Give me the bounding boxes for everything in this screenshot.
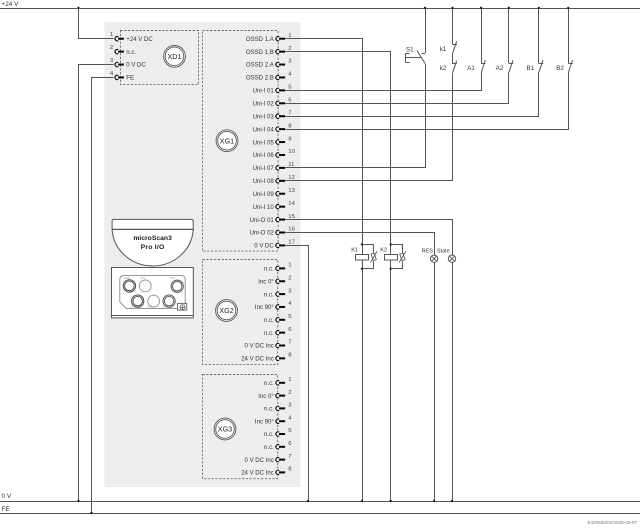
svg-text:Uni-I 04: Uni-I 04 xyxy=(253,127,275,133)
svg-text:0 V: 0 V xyxy=(2,493,12,500)
svg-text:14: 14 xyxy=(288,201,295,207)
svg-text:Inc 0°: Inc 0° xyxy=(258,394,274,400)
svg-text:Uni-I 10: Uni-I 10 xyxy=(253,205,275,211)
svg-text:2: 2 xyxy=(110,45,113,51)
svg-text:XG2: XG2 xyxy=(162,304,168,308)
svg-text:microScan3: microScan3 xyxy=(133,235,172,242)
svg-text:E420562/00/2025-03-07: E420562/00/2025-03-07 xyxy=(587,520,637,525)
svg-text:0 V DC Inc: 0 V DC Inc xyxy=(245,458,274,464)
svg-text:XG2: XG2 xyxy=(219,306,233,315)
svg-text:1: 1 xyxy=(288,377,291,383)
svg-text:n.c.: n.c. xyxy=(264,445,274,451)
svg-text:B2: B2 xyxy=(556,65,564,72)
svg-text:+24 V: +24 V xyxy=(2,1,20,8)
svg-text:2: 2 xyxy=(288,46,291,52)
svg-text:0 V DC: 0 V DC xyxy=(254,244,274,250)
svg-text:+24 V DC: +24 V DC xyxy=(126,37,153,43)
svg-text:Uni-I 03: Uni-I 03 xyxy=(253,114,275,120)
svg-text:XF1: XF1 xyxy=(141,276,146,280)
svg-text:n.c.: n.c. xyxy=(264,318,274,324)
svg-text:24 V DC Inc: 24 V DC Inc xyxy=(241,357,274,363)
svg-text:Uni-I 05: Uni-I 05 xyxy=(253,140,275,146)
svg-text:XD1: XD1 xyxy=(130,304,136,308)
svg-text:Uni-O 02: Uni-O 02 xyxy=(250,231,275,237)
svg-text:S1: S1 xyxy=(406,47,414,54)
svg-text:Uni-I 01: Uni-I 01 xyxy=(253,89,275,95)
svg-text:7: 7 xyxy=(288,454,291,460)
svg-text:FE: FE xyxy=(126,76,134,82)
svg-text:1: 1 xyxy=(110,32,113,38)
svg-text:Uni-I 02: Uni-I 02 xyxy=(253,102,275,108)
svg-text:0 V DC: 0 V DC xyxy=(126,63,146,69)
svg-text:2: 2 xyxy=(288,275,291,281)
svg-text:7: 7 xyxy=(288,110,291,116)
svg-text:Inc 0°: Inc 0° xyxy=(258,279,274,285)
svg-text:K1: K1 xyxy=(351,248,358,254)
svg-text:12: 12 xyxy=(288,175,295,181)
svg-text:n.c.: n.c. xyxy=(264,381,274,387)
svg-text:16: 16 xyxy=(288,227,295,233)
svg-text:B1: B1 xyxy=(527,65,535,72)
svg-text:10: 10 xyxy=(288,149,295,155)
svg-text:K2: K2 xyxy=(380,248,387,254)
svg-text:State: State xyxy=(437,248,450,254)
svg-text:n.c.: n.c. xyxy=(264,267,274,273)
svg-text:Uni-I 06: Uni-I 06 xyxy=(253,153,275,159)
svg-text:n.c.: n.c. xyxy=(264,407,274,413)
svg-text:7: 7 xyxy=(288,340,291,346)
svg-text:Uni-I 07: Uni-I 07 xyxy=(253,166,275,172)
svg-text:n.c.: n.c. xyxy=(264,331,274,337)
svg-text:1: 1 xyxy=(288,33,291,39)
svg-text:OSSD 2.B: OSSD 2.B xyxy=(246,76,274,82)
svg-text:15: 15 xyxy=(288,214,295,220)
svg-text:XG3: XG3 xyxy=(147,304,153,308)
svg-text:n.c.: n.c. xyxy=(126,50,136,56)
svg-text:Uni-I 08: Uni-I 08 xyxy=(253,179,275,185)
svg-text:OSSD 2.A: OSSD 2.A xyxy=(246,63,275,69)
svg-text:24 V DC Inc: 24 V DC Inc xyxy=(241,471,274,477)
svg-text:A2: A2 xyxy=(496,65,504,72)
svg-text:n.c.: n.c. xyxy=(264,292,274,298)
svg-text:FE: FE xyxy=(2,506,10,513)
svg-text:A1: A1 xyxy=(467,65,475,72)
svg-text:OSSD 1.A: OSSD 1.A xyxy=(246,37,275,43)
svg-text:Uni-I 09: Uni-I 09 xyxy=(253,192,275,198)
svg-text:RES: RES xyxy=(422,248,434,254)
svg-text:OSSD 1.B: OSSD 1.B xyxy=(246,50,274,56)
svg-text:OSSD: OSSD xyxy=(123,276,130,280)
svg-text:17: 17 xyxy=(288,240,295,246)
svg-text:XG1: XG1 xyxy=(170,276,176,280)
svg-text:XD1: XD1 xyxy=(168,52,182,61)
svg-text:Uni-O 01: Uni-O 01 xyxy=(250,218,275,224)
svg-text:k1: k1 xyxy=(440,46,447,53)
svg-text:1: 1 xyxy=(288,263,291,269)
svg-text:13: 13 xyxy=(288,188,295,194)
svg-text:k2: k2 xyxy=(440,65,447,72)
svg-text:n.c.: n.c. xyxy=(264,432,274,438)
svg-text:XG3: XG3 xyxy=(218,425,232,434)
svg-text:9: 9 xyxy=(288,136,291,142)
svg-text:2: 2 xyxy=(288,390,291,396)
svg-text:0 V DC Inc: 0 V DC Inc xyxy=(245,344,274,350)
svg-text:11: 11 xyxy=(288,162,294,168)
svg-text:Pro I/O: Pro I/O xyxy=(141,244,165,251)
svg-text:XG1: XG1 xyxy=(220,136,234,145)
svg-text:Inc 90°: Inc 90° xyxy=(255,419,274,425)
svg-text:Inc 90°: Inc 90° xyxy=(255,305,274,311)
